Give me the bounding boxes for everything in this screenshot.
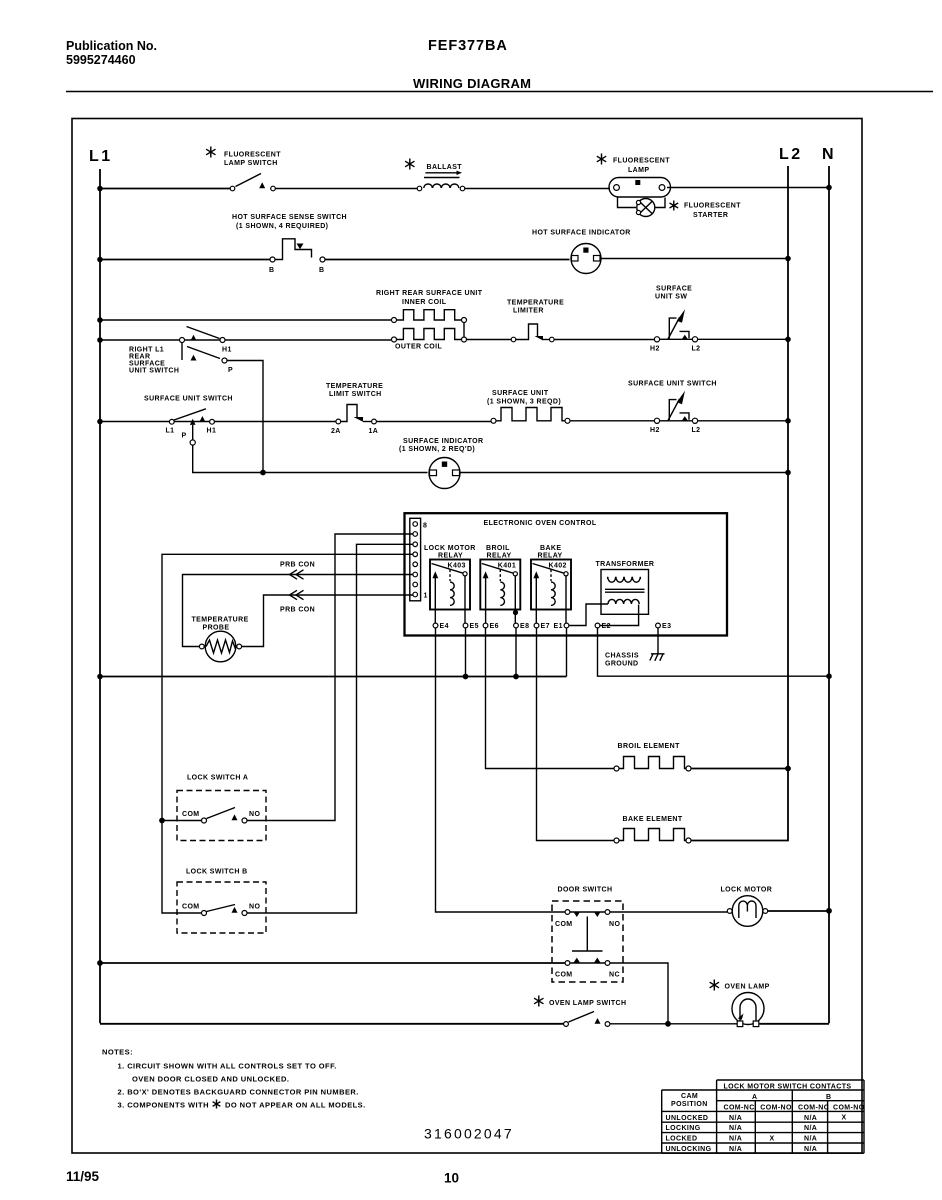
svg-text:B: B bbox=[826, 1094, 831, 1101]
temperature limit switch bbox=[326, 383, 383, 435]
svg-text:CAM: CAM bbox=[681, 1093, 698, 1100]
page border bbox=[72, 119, 862, 1154]
wire door switch to oven lamp wire bbox=[610, 963, 671, 1027]
svg-text:E7: E7 bbox=[541, 623, 550, 630]
svg-text:X: X bbox=[770, 1136, 775, 1143]
svg-text:H1: H1 bbox=[222, 347, 232, 354]
svg-text:2A: 2A bbox=[331, 428, 341, 435]
bus L1 bbox=[99, 169, 101, 1023]
wire oven lamp switch to oven lamp bbox=[610, 1023, 737, 1025]
svg-text:L1: L1 bbox=[89, 148, 113, 165]
svg-text:L2: L2 bbox=[779, 146, 803, 163]
svg-text:L2: L2 bbox=[692, 427, 701, 434]
svg-text:(1 SHOWN, 2 REQ'D): (1 SHOWN, 2 REQ'D) bbox=[399, 446, 475, 453]
junction wire6 at L2 bbox=[785, 470, 791, 476]
svg-text:NO: NO bbox=[609, 921, 620, 928]
wire indicator to L2 bbox=[460, 472, 788, 474]
lock motor relay K403 bbox=[424, 545, 476, 623]
svg-text:STARTER: STARTER bbox=[693, 212, 728, 219]
EOC connector bbox=[410, 518, 428, 601]
wire E7 to bake element bbox=[537, 628, 615, 841]
svg-text:LAMP: LAMP bbox=[628, 167, 649, 174]
lock motor switch contacts table bbox=[662, 1080, 865, 1153]
svg-text:N/A: N/A bbox=[729, 1136, 742, 1143]
wire L1 to surface unit switch bbox=[97, 419, 169, 425]
hot surface indicator bbox=[532, 230, 631, 274]
wire element to surface unit switch right bbox=[570, 420, 655, 422]
svg-text:K402: K402 bbox=[549, 563, 567, 570]
junction wire2 at L2 bbox=[785, 256, 791, 262]
svg-text:POSITION: POSITION bbox=[671, 1101, 708, 1108]
wire outer coil to temperature limiter bbox=[467, 339, 512, 341]
temperature limiter bbox=[507, 300, 564, 342]
svg-text:RIGHT L1: RIGHT L1 bbox=[129, 347, 164, 354]
svg-text:LIMITER: LIMITER bbox=[513, 308, 544, 315]
svg-text:CHASSIS: CHASSIS bbox=[605, 653, 639, 660]
svg-text:BROIL: BROIL bbox=[486, 545, 510, 552]
junction wire5 at L2 bbox=[785, 418, 791, 424]
wire surface unit sw to L2 bbox=[698, 338, 788, 340]
fluorescent starter bbox=[618, 198, 742, 220]
svg-text:A: A bbox=[752, 1094, 757, 1101]
svg-text:SURFACE UNIT SWITCH: SURFACE UNIT SWITCH bbox=[628, 381, 717, 388]
svg-text:PRB CON: PRB CON bbox=[280, 607, 315, 614]
svg-text:P: P bbox=[228, 367, 233, 374]
wire P to surface indicator bbox=[193, 445, 428, 473]
svg-text:TEMPERATURE: TEMPERATURE bbox=[507, 300, 564, 307]
wire temperature probe to connector pin1 bbox=[242, 590, 413, 646]
svg-text:N/A: N/A bbox=[804, 1115, 817, 1122]
wire switch to ballast bbox=[275, 188, 417, 190]
wire L1 to right rear surface unit switch bbox=[97, 337, 180, 343]
svg-text:NO: NO bbox=[249, 904, 260, 911]
svg-text:N/A: N/A bbox=[804, 1146, 817, 1153]
wire switch H1 to outer coil bbox=[225, 339, 392, 341]
wire oven lamp to N bbox=[760, 1023, 830, 1025]
svg-text:UNIT SW: UNIT SW bbox=[655, 294, 687, 301]
svg-text:OUTER COIL: OUTER COIL bbox=[395, 344, 442, 351]
lock motor bbox=[721, 887, 773, 927]
svg-text:316002047: 316002047 bbox=[424, 1126, 514, 1142]
wire L1 to oven lamp switch bbox=[100, 1023, 564, 1025]
svg-text:K401: K401 bbox=[498, 563, 516, 570]
wire E2 to transformer bbox=[600, 605, 639, 626]
svg-text:TRANSFORMER: TRANSFORMER bbox=[596, 561, 655, 568]
svg-text:(1 SHOWN, 4 REQUIRED): (1 SHOWN, 4 REQUIRED) bbox=[236, 223, 328, 230]
wire connector pin3 to temperature probe bbox=[183, 562, 413, 647]
EOC terminals bbox=[433, 623, 671, 630]
svg-text:COM-NO: COM-NO bbox=[760, 1104, 792, 1111]
surface unit switch left bbox=[144, 396, 233, 446]
svg-text:LAMP SWITCH: LAMP SWITCH bbox=[224, 160, 278, 167]
svg-text:REAR: REAR bbox=[129, 354, 150, 361]
svg-text:E6: E6 bbox=[490, 623, 499, 630]
temperature probe bbox=[192, 617, 249, 662]
svg-text:COM-NC: COM-NC bbox=[798, 1104, 829, 1111]
svg-text:UNIT SWITCH: UNIT SWITCH bbox=[129, 368, 179, 375]
transformer bbox=[596, 561, 655, 614]
wire L1 to fluorescent lamp switch bbox=[97, 186, 230, 192]
svg-text:N/A: N/A bbox=[729, 1115, 742, 1122]
oven lamp switch bbox=[534, 996, 626, 1027]
wire E5 to neutral tie bbox=[463, 628, 469, 679]
svg-text:3. COMPONENTS WITH: 3. COMPONENTS WITH bbox=[118, 1101, 209, 1110]
svg-text:LOCK SWITCH B: LOCK SWITCH B bbox=[186, 869, 248, 876]
bus L2 bbox=[787, 166, 789, 841]
wire lock motor to N bbox=[768, 908, 832, 914]
bake element bbox=[614, 816, 691, 843]
wire L1 to hot surface sense switch bbox=[97, 257, 270, 263]
svg-text:L1: L1 bbox=[166, 428, 175, 435]
wire connector pin7 to lock switch A bbox=[247, 534, 413, 821]
svg-text:SURFACE: SURFACE bbox=[129, 361, 165, 368]
junction wire4 at L2 bbox=[785, 337, 791, 343]
svg-text:5995274460: 5995274460 bbox=[66, 53, 136, 67]
svg-text:SURFACE INDICATOR: SURFACE INDICATOR bbox=[403, 438, 483, 445]
svg-text:N/A: N/A bbox=[804, 1136, 817, 1143]
svg-text:N: N bbox=[822, 146, 836, 163]
lock switch A bbox=[177, 775, 266, 841]
svg-text:RELAY: RELAY bbox=[438, 553, 463, 560]
svg-text:NC: NC bbox=[609, 972, 620, 979]
svg-text:NO: NO bbox=[249, 811, 260, 818]
wire E2 to N bbox=[598, 628, 832, 679]
svg-text:2. BO'X' DENOTES BACKGUARD CON: 2. BO'X' DENOTES BACKGUARD CONNECTOR PIN… bbox=[118, 1088, 359, 1097]
svg-text:L2: L2 bbox=[692, 346, 701, 353]
right rear surface unit inner coil bbox=[376, 290, 483, 323]
svg-text:E3: E3 bbox=[662, 623, 671, 630]
svg-text:LOCK MOTOR: LOCK MOTOR bbox=[424, 545, 476, 552]
svg-text:LOCKING: LOCKING bbox=[666, 1125, 701, 1132]
svg-text:LIMIT SWITCH: LIMIT SWITCH bbox=[329, 391, 382, 398]
wire surface unit switch right to L2 bbox=[698, 420, 788, 422]
junction wire1 at N bbox=[826, 185, 832, 191]
wire bake element to L2 bbox=[691, 840, 789, 842]
svg-text:COM: COM bbox=[555, 921, 573, 928]
svg-text:N/A: N/A bbox=[804, 1125, 817, 1132]
svg-text:DO NOT APPEAR ON ALL MODELS.: DO NOT APPEAR ON ALL MODELS. bbox=[225, 1101, 366, 1110]
svg-text:11/95: 11/95 bbox=[66, 1169, 100, 1184]
wire broil element to L2 bbox=[691, 766, 791, 772]
svg-text:UNLOCKED: UNLOCKED bbox=[666, 1115, 709, 1122]
svg-text:H2: H2 bbox=[650, 427, 660, 434]
svg-text:N/A: N/A bbox=[729, 1125, 742, 1132]
svg-text:COM-NC: COM-NC bbox=[724, 1104, 755, 1111]
surface unit switch right bbox=[628, 381, 717, 435]
svg-text:HOT SURFACE INDICATOR: HOT SURFACE INDICATOR bbox=[532, 230, 631, 237]
door switch bbox=[552, 887, 623, 983]
wire connector pin6 to lock switch B bbox=[247, 544, 413, 913]
wire ballast to fluorescent lamp bbox=[465, 188, 610, 190]
svg-text:SURFACE UNIT: SURFACE UNIT bbox=[492, 390, 549, 397]
wire switch to temperature limit switch bbox=[215, 421, 337, 423]
svg-text:FLUORESCENT: FLUORESCENT bbox=[613, 158, 670, 165]
lock switch B bbox=[177, 869, 266, 934]
svg-text:OVEN LAMP: OVEN LAMP bbox=[725, 984, 770, 991]
fluorescent lamp bbox=[597, 154, 671, 198]
neutral tie wire L1 to E1 bbox=[97, 674, 566, 680]
svg-text:OVEN DOOR CLOSED AND UNLOCKED.: OVEN DOOR CLOSED AND UNLOCKED. bbox=[132, 1075, 289, 1084]
right rear surface unit switch bbox=[129, 327, 233, 375]
svg-text:E8: E8 bbox=[520, 623, 529, 630]
fluorescent lamp switch bbox=[206, 147, 281, 191]
wire door switch to lock motor bbox=[610, 911, 727, 913]
svg-text:E1: E1 bbox=[554, 623, 563, 630]
svg-text:LOCK SWITCH A: LOCK SWITCH A bbox=[187, 775, 248, 782]
svg-text:UNLOCKING: UNLOCKING bbox=[666, 1146, 712, 1153]
svg-text:BALLAST: BALLAST bbox=[427, 164, 463, 171]
wire L1 to inner coil bbox=[97, 317, 391, 323]
svg-text:BAKE: BAKE bbox=[540, 545, 561, 552]
svg-text:X: X bbox=[842, 1115, 847, 1122]
svg-text:E4: E4 bbox=[440, 623, 449, 630]
svg-text:LOCKED: LOCKED bbox=[666, 1136, 698, 1143]
wire L1 to door switch lower pole bbox=[97, 960, 565, 966]
svg-text:COM: COM bbox=[555, 972, 573, 979]
svg-text:RELAY: RELAY bbox=[538, 553, 563, 560]
wire indicator to L2 bbox=[601, 258, 788, 260]
svg-text:H2: H2 bbox=[650, 346, 660, 353]
svg-text:BROIL ELEMENT: BROIL ELEMENT bbox=[618, 743, 681, 750]
svg-text:GROUND: GROUND bbox=[605, 661, 639, 668]
electronic oven control box bbox=[405, 513, 728, 635]
bake relay K402 bbox=[531, 545, 571, 623]
bus N bbox=[828, 166, 830, 1023]
svg-text:NOTES:: NOTES: bbox=[102, 1048, 133, 1057]
chassis ground bbox=[605, 628, 665, 668]
svg-text:FEF377BA: FEF377BA bbox=[428, 38, 508, 54]
svg-text:RELAY: RELAY bbox=[487, 553, 512, 560]
wire E6 to broil element bbox=[486, 628, 615, 769]
outer coil bbox=[392, 329, 467, 351]
svg-text:(1 SHOWN, 3 REQD): (1 SHOWN, 3 REQD) bbox=[487, 399, 561, 406]
wire E1 down bbox=[566, 628, 568, 677]
svg-text:WIRING DIAGRAM: WIRING DIAGRAM bbox=[413, 76, 531, 91]
svg-text:P: P bbox=[182, 433, 187, 440]
svg-text:PROBE: PROBE bbox=[203, 625, 230, 632]
svg-text:TEMPERATURE: TEMPERATURE bbox=[192, 617, 249, 624]
svg-text:TEMPERATURE: TEMPERATURE bbox=[326, 383, 383, 390]
svg-text:FLUORESCENT: FLUORESCENT bbox=[684, 203, 741, 210]
wire lamp to N bbox=[667, 187, 829, 189]
coil junction vertical bbox=[463, 323, 465, 338]
broil element bbox=[614, 743, 691, 771]
hot surface sense switch bbox=[232, 214, 347, 274]
wire E1 to transformer bbox=[569, 604, 608, 626]
svg-text:E2: E2 bbox=[602, 623, 611, 630]
svg-text:COM: COM bbox=[182, 811, 200, 818]
svg-text:1: 1 bbox=[424, 593, 428, 600]
svg-text:SURFACE: SURFACE bbox=[656, 286, 692, 293]
svg-text:8: 8 bbox=[423, 523, 427, 530]
svg-text:LOCK MOTOR: LOCK MOTOR bbox=[721, 887, 773, 894]
wire E8 to neutral tie bbox=[513, 628, 519, 679]
svg-text:HOT SURFACE SENSE SWITCH: HOT SURFACE SENSE SWITCH bbox=[232, 214, 347, 221]
notes bbox=[102, 1048, 366, 1110]
svg-text:RIGHT REAR SURFACE UNIT: RIGHT REAR SURFACE UNIT bbox=[376, 290, 483, 297]
svg-text:INNER COIL: INNER COIL bbox=[402, 299, 447, 306]
svg-text:ELECTRONIC OVEN CONTROL: ELECTRONIC OVEN CONTROL bbox=[484, 520, 597, 527]
ballast bbox=[405, 159, 465, 191]
svg-text:H1: H1 bbox=[207, 428, 217, 435]
svg-text:1A: 1A bbox=[369, 428, 379, 435]
svg-text:10: 10 bbox=[444, 1171, 459, 1186]
svg-text:B: B bbox=[319, 267, 324, 274]
junction wire6 bbox=[260, 470, 266, 476]
surface unit element bbox=[487, 390, 570, 423]
wire E4 to door switch bbox=[436, 628, 566, 912]
svg-text:1. CIRCUIT SHOWN WITH ALL CONT: 1. CIRCUIT SHOWN WITH ALL CONTROLS SET T… bbox=[118, 1062, 337, 1071]
broil relay K401 bbox=[480, 545, 520, 623]
oven lamp bbox=[710, 980, 770, 1027]
wire connector pin5 to lock switches COM bbox=[159, 554, 412, 913]
svg-text:PRB CON: PRB CON bbox=[280, 562, 315, 569]
wire switch P to wire6 junction bbox=[227, 361, 263, 472]
surface indicator bbox=[399, 438, 483, 489]
svg-text:Publication No.: Publication No. bbox=[66, 39, 157, 53]
svg-text:B: B bbox=[269, 267, 274, 274]
svg-text:OVEN LAMP SWITCH: OVEN LAMP SWITCH bbox=[549, 1000, 626, 1007]
svg-text:K403: K403 bbox=[448, 563, 466, 570]
svg-text:LOCK MOTOR SWITCH CONTACTS: LOCK MOTOR SWITCH CONTACTS bbox=[724, 1084, 852, 1091]
svg-text:DOOR SWITCH: DOOR SWITCH bbox=[558, 887, 613, 894]
svg-text:COM: COM bbox=[182, 904, 200, 911]
header rule bbox=[66, 91, 933, 93]
svg-text:COM-NO: COM-NO bbox=[833, 1104, 865, 1111]
wire limiter to surface unit sw bbox=[554, 339, 655, 341]
surface unit sw bbox=[650, 286, 700, 353]
svg-text:FLUORESCENT: FLUORESCENT bbox=[224, 152, 281, 159]
svg-text:BAKE ELEMENT: BAKE ELEMENT bbox=[623, 816, 683, 823]
wire sense switch to hot surface indicator bbox=[325, 259, 570, 261]
svg-text:SURFACE UNIT SWITCH: SURFACE UNIT SWITCH bbox=[144, 396, 233, 403]
svg-text:N/A: N/A bbox=[729, 1146, 742, 1153]
svg-text:E5: E5 bbox=[470, 623, 479, 630]
wire limit switch to surface unit element bbox=[376, 421, 491, 423]
